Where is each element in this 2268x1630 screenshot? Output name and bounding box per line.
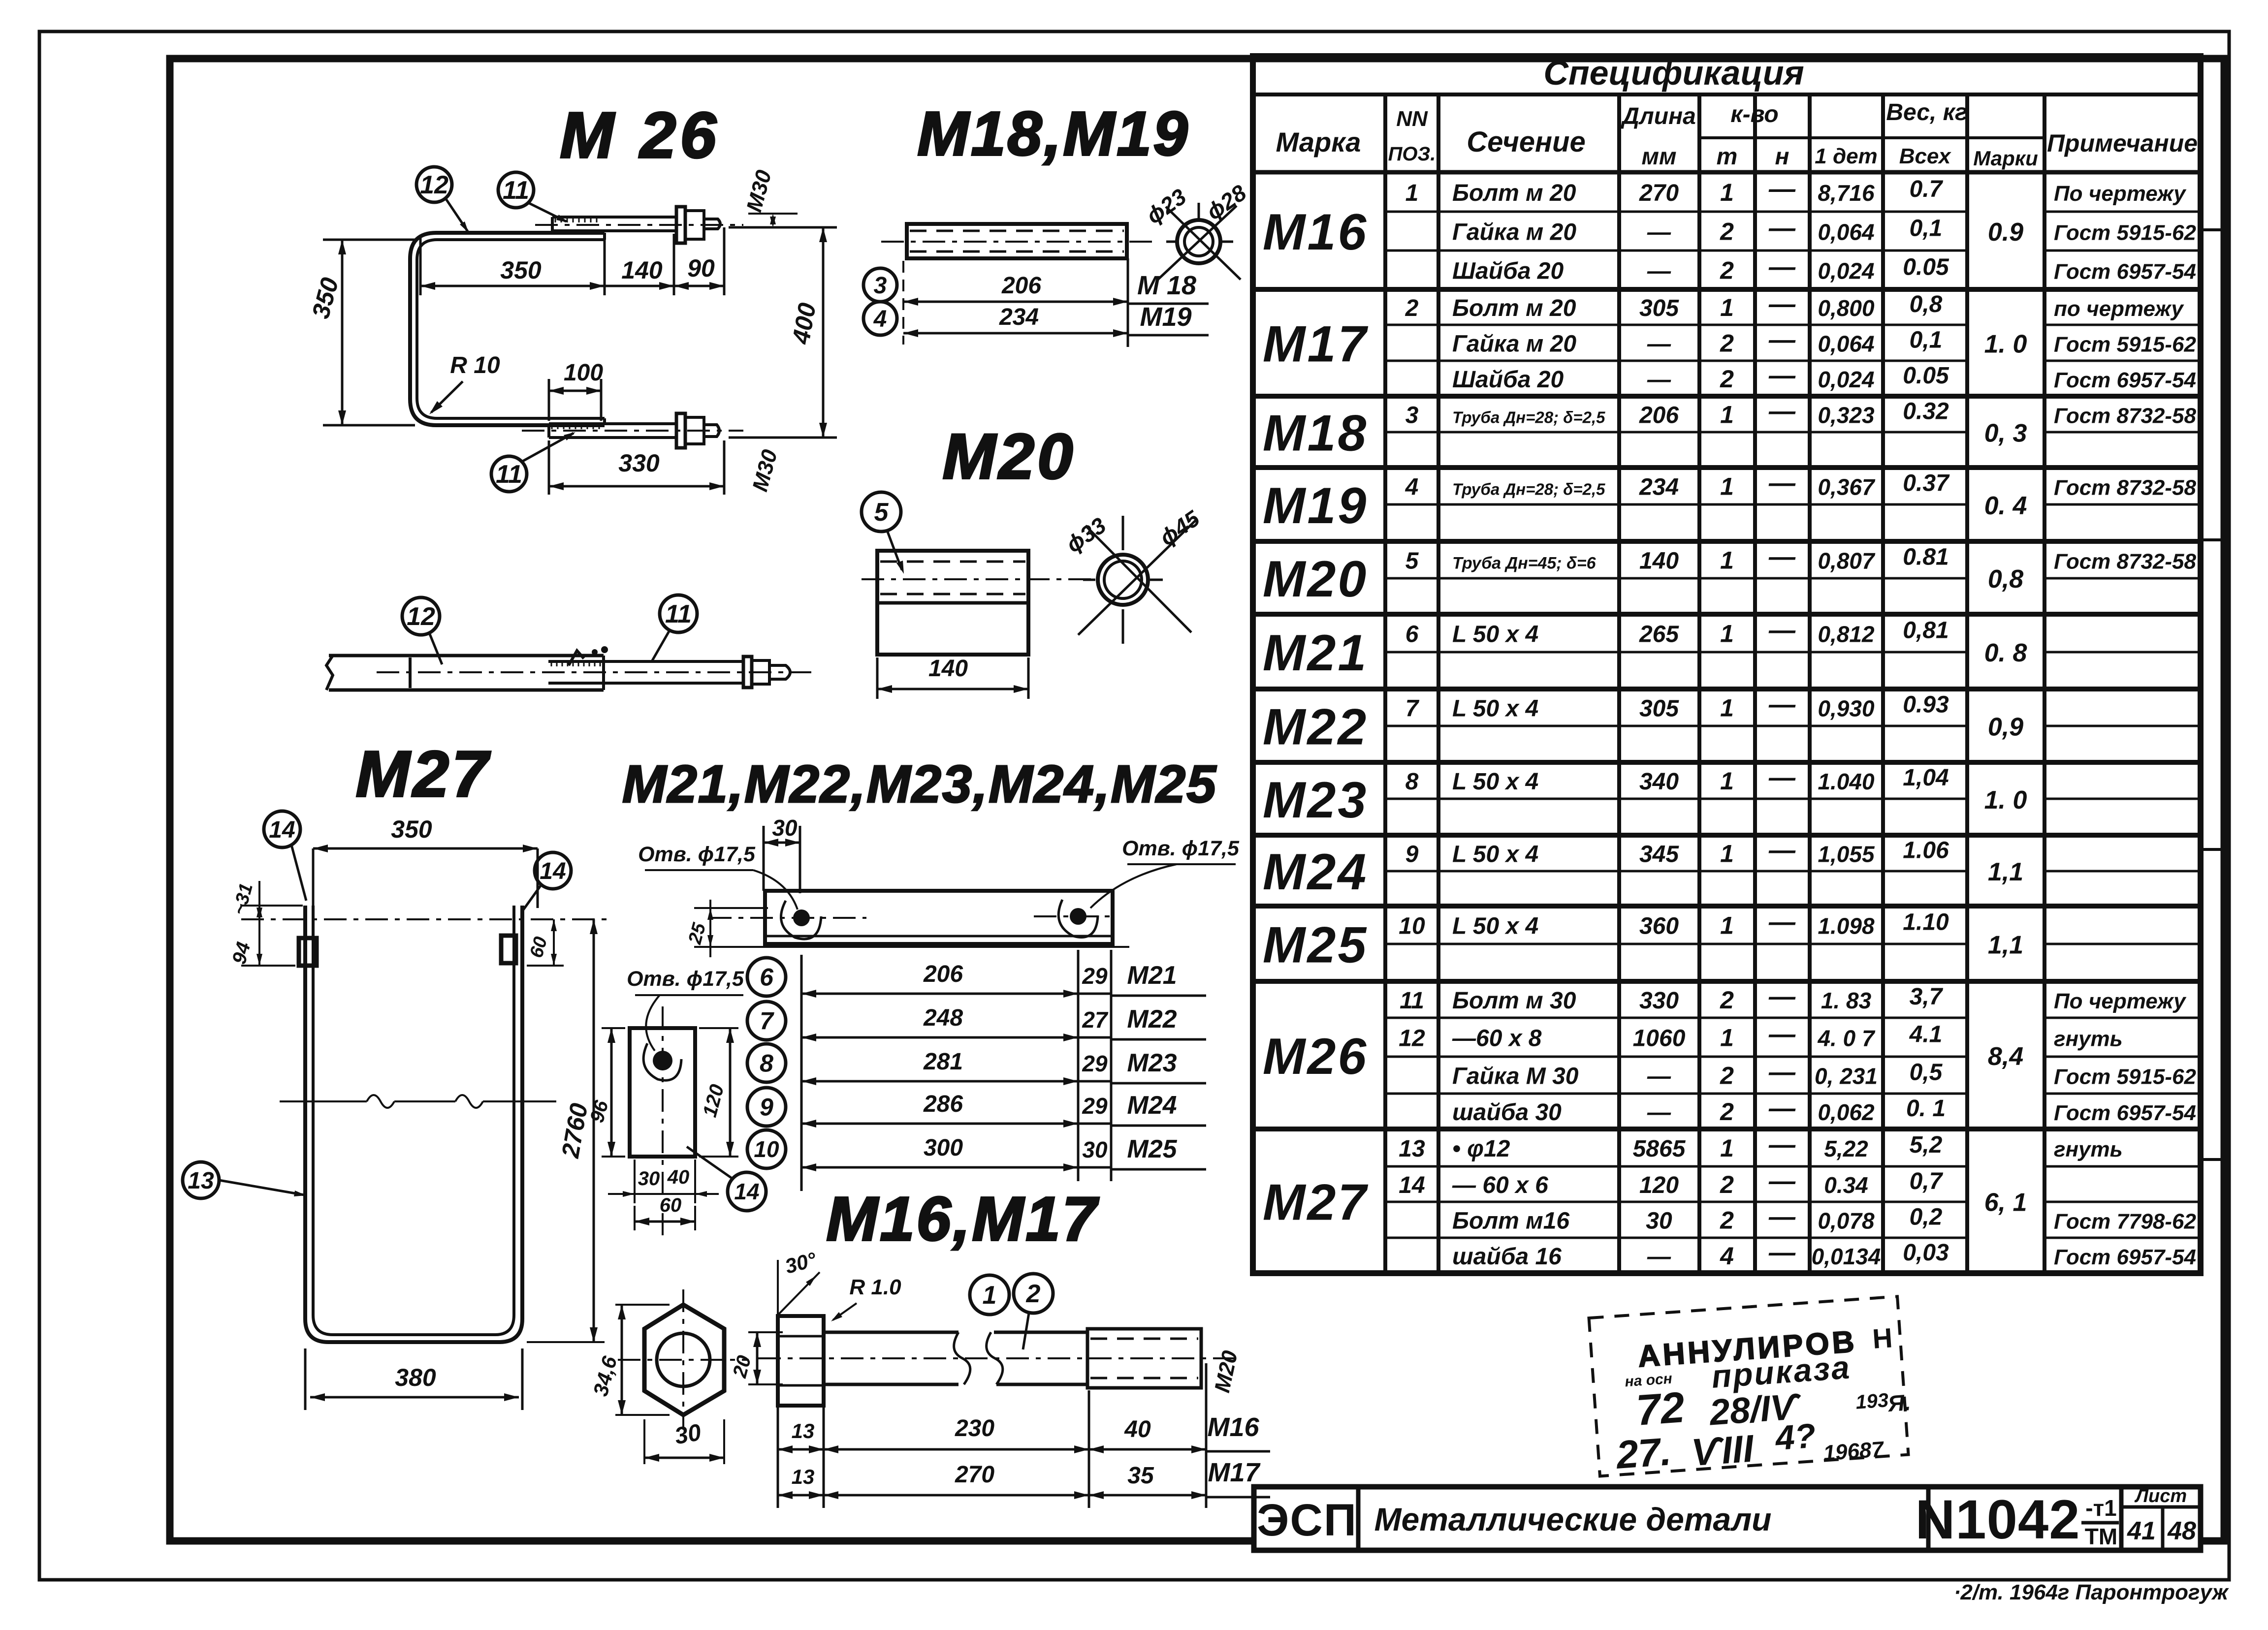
svg-text:0,8: 0,8 [1910,291,1943,317]
30 deg chamfer label [777,1260,779,1315]
svg-text:—: — [1768,690,1796,720]
svg-text:0,03: 0,03 [1903,1240,1949,1266]
svg-text:10: 10 [754,1136,779,1162]
svg-text:11: 11 [503,176,529,205]
svg-text:—: — [1768,763,1796,792]
spec table header bottom line [1253,170,2201,175]
svg-text:1 дет: 1 дет [1815,144,1878,168]
svg-text:М24: М24 [1263,844,1368,901]
svg-text:0,812: 0,812 [1818,622,1875,647]
svg-text:—: — [1768,1202,1796,1232]
svg-text:13: 13 [792,1465,815,1488]
svg-text:1: 1 [1720,840,1734,868]
svg-text:8,716: 8,716 [1818,180,1875,206]
svg-text:0.81: 0.81 [1903,544,1949,570]
svg-text:206: 206 [1001,273,1041,299]
svg-text:234: 234 [999,304,1039,330]
dimension chain 350/140/90 (M26) [419,237,422,295]
svg-text:0,367: 0,367 [1818,474,1876,500]
dimension 350 vertical left (M26) [323,239,415,241]
dim row M17 [778,1494,824,1497]
svg-text:М19: М19 [1263,477,1368,534]
svg-text:—: — [1768,325,1796,355]
svg-text:350: 350 [500,256,542,284]
dim rows M16/M17 [777,1408,779,1508]
balloon 1 (bolt M16) [970,1275,1009,1315]
svg-text:14: 14 [540,858,566,884]
dimension row М22 [801,1036,1078,1039]
dimension 100 (M26 bottom bolt thread len) [548,379,550,421]
svg-text:—: — [1768,982,1796,1011]
svg-text:1: 1 [1720,912,1734,940]
svg-text:11: 11 [1400,988,1424,1014]
svg-text:Болт м 30: Болт м 30 [1452,988,1576,1014]
svg-text:0,078: 0,078 [1818,1208,1875,1234]
svg-text:4: 4 [1405,474,1419,501]
svg-text:2: 2 [1720,218,1734,246]
dimension ~31 and 94 (M27 left) [241,905,303,907]
svg-text:ТМ: ТМ [2085,1524,2117,1549]
svg-text:380: 380 [395,1364,436,1391]
svg-text:Н: Н [1871,1322,1893,1354]
title block [1254,1487,2201,1550]
svg-text:0.7: 0.7 [1910,176,1944,202]
svg-text:N1042: N1042 [1915,1489,2080,1550]
spec table outer border [1253,56,2201,1273]
plate hole [653,1051,672,1070]
svg-text:Гост 5915-62: Гост 5915-62 [2054,1065,2197,1089]
svg-text:27.: 27. [1614,1429,1672,1477]
bolt head side view [778,1316,824,1406]
svg-text:0,2: 0,2 [1910,1204,1943,1230]
svg-text:—: — [1768,174,1796,204]
svg-text:248: 248 [923,1005,963,1031]
svg-text:Гост 5915-62: Гост 5915-62 [2054,221,2197,245]
table block М23 [1253,833,2201,838]
svg-text:— 60 x 6: — 60 x 6 [1452,1172,1548,1198]
svg-text:330: 330 [1639,988,1679,1014]
svg-text:—: — [1768,1130,1796,1160]
svg-text:Гост 6957-54: Гост 6957-54 [2054,260,2196,284]
dimension row М24 [801,1123,1078,1125]
svg-text:—: — [1768,289,1796,319]
svg-text:1: 1 [1720,767,1734,795]
svg-text:—: — [1768,542,1796,572]
svg-text:1: 1 [1720,294,1734,321]
svg-text:Гост 8732-58: Гост 8732-58 [2054,550,2197,574]
svg-text:0,1: 0,1 [1910,216,1943,242]
table block М21 [1253,687,2201,691]
svg-text:Примечание: Примечание [2047,129,2198,157]
svg-text:350: 350 [391,815,432,843]
svg-text:29: 29 [1082,1093,1108,1119]
svg-text:Сечение: Сечение [1467,126,1586,158]
svg-text:М18: М18 [1263,405,1368,462]
svg-text:2: 2 [1720,1062,1734,1090]
svg-text:5865: 5865 [1633,1136,1686,1162]
balloon 14 left (M27) [264,811,300,847]
svg-text:3: 3 [1406,403,1419,429]
dimension 400 vertical right (M26) [729,226,837,229]
svg-text:L 50 x 4: L 50 x 4 [1452,842,1538,868]
svg-text:к-во: к-во [1730,101,1778,127]
svg-text:330: 330 [618,449,660,477]
balloon 3 (M18) [863,268,897,302]
svg-text:NN: NN [1396,107,1428,131]
svg-text:234: 234 [1639,474,1679,501]
svg-text:100: 100 [564,360,603,386]
dimension 25 (bar) [694,907,768,909]
svg-text:360: 360 [1639,913,1679,940]
dimension 30 (nut) [643,1419,645,1464]
svg-text:19687: 19687 [1822,1437,1885,1466]
svg-text:8: 8 [760,1050,773,1077]
svg-text:2: 2 [1720,1098,1734,1126]
M26 top bolt item 11 [552,216,677,219]
dimension 140 (M20) [876,658,879,699]
svg-text:1: 1 [1720,547,1734,574]
svg-text:305: 305 [1639,696,1679,722]
svg-text:Я.: Я. [1886,1389,1912,1416]
svg-text:М21: М21 [1127,961,1177,990]
svg-text:L 50 x 4: L 50 x 4 [1452,622,1538,648]
svg-text:6: 6 [1406,622,1419,648]
svg-text:М16,М17: М16,М17 [826,1184,1099,1254]
svg-text:90: 90 [687,254,715,282]
svg-text:4. 0 7: 4. 0 7 [1817,1026,1876,1051]
svg-text:230: 230 [955,1415,994,1442]
svg-text:40: 40 [1124,1416,1151,1442]
svg-text:—: — [1768,616,1796,645]
dimension row М25 [801,1166,1078,1169]
M27 clamp plates item 14 [299,938,317,966]
svg-text:30: 30 [672,1419,703,1450]
svg-text:0,930: 0,930 [1818,696,1875,721]
balloons 6-10 [747,958,786,996]
svg-text:—: — [1768,214,1796,243]
svg-text:140: 140 [621,256,663,284]
svg-text:0,064: 0,064 [1818,219,1874,245]
svg-text:1: 1 [1720,1134,1734,1162]
svg-text:Гост 8732-58: Гост 8732-58 [2054,476,2197,500]
svg-text:6: 6 [760,964,774,991]
svg-text:М23: М23 [1263,772,1368,829]
part M27 bent rod item 13 [305,906,522,1342]
svg-text:35: 35 [1127,1463,1154,1489]
svg-text:ЭСП: ЭСП [1257,1495,1357,1545]
svg-text:2: 2 [1026,1280,1041,1308]
svg-text:4: 4 [1720,1242,1734,1270]
svg-text:М22: М22 [1263,699,1368,756]
svg-text:140: 140 [1639,548,1679,574]
balloon 14 right (M27) [535,852,571,889]
tube M18/M19 body [907,224,1127,258]
svg-text:• φ12: • φ12 [1452,1136,1510,1162]
table block М16 [1253,287,2201,292]
svg-text:Труба Дн=45; δ=6: Труба Дн=45; δ=6 [1452,554,1597,573]
dimension 96 (plate left) [602,1027,625,1029]
svg-text:345: 345 [1639,842,1679,868]
svg-text:М19: М19 [1140,302,1191,332]
dimension row М23 [801,1080,1078,1083]
svg-text:0,024: 0,024 [1818,367,1874,392]
list box [2121,1505,2201,1509]
svg-text:Гайка м 20: Гайка м 20 [1452,331,1576,357]
balloon 11 (M26 top bolt) [498,172,534,208]
svg-text:12: 12 [407,602,435,631]
svg-text:0, 3: 0, 3 [1984,419,2027,448]
dimension 380 bottom (M27) [304,1348,307,1410]
svg-text:М17: М17 [1208,1458,1261,1487]
svg-text:4: 4 [873,306,887,332]
part M21-M25 bar (top view) [765,891,1113,944]
balloon 12 (M26 strip) [416,167,452,202]
svg-text:Отв. ϕ17,5: Отв. ϕ17,5 [638,843,756,866]
part M26 bent strip item 12 [410,233,605,425]
svg-text:0.34: 0.34 [1824,1172,1868,1198]
dimension 350 top (M27) [312,848,315,908]
svg-text:7: 7 [1406,696,1420,722]
svg-text:0,5: 0,5 [1910,1060,1943,1086]
svg-text:1.098: 1.098 [1818,913,1875,939]
svg-text:30: 30 [1646,1208,1672,1234]
svg-text:8: 8 [1406,769,1419,795]
svg-text:5,22: 5,22 [1824,1136,1868,1161]
svg-text:R 10: R 10 [450,352,500,378]
svg-text:—: — [1768,397,1796,426]
svg-text:по чертежу: по чертежу [2054,297,2184,321]
svg-text:Шайба 20: Шайба 20 [1452,367,1564,393]
svg-text:Шайба 20: Шайба 20 [1452,258,1564,284]
svg-text:0,800: 0,800 [1818,295,1875,321]
svg-text:гнуть: гнуть [2054,1027,2123,1051]
svg-text:Длина: Длина [1620,103,1696,129]
balloon 11 lower (M26) [491,456,527,492]
svg-text:0,1: 0,1 [1910,327,1943,353]
svg-text:12: 12 [1399,1026,1425,1052]
svg-text:12: 12 [420,171,448,199]
svg-text:М23: М23 [1127,1049,1177,1077]
svg-text:н: н [1775,144,1789,170]
svg-text:14: 14 [269,817,295,843]
svg-text:—60 x 8: —60 x 8 [1452,1026,1542,1052]
svg-text:14: 14 [1399,1172,1425,1198]
svg-text:—: — [1768,1238,1796,1267]
svg-text:ПОЗ.: ПОЗ. [1388,143,1436,165]
svg-text:—: — [1768,1094,1796,1123]
svg-text:27: 27 [1082,1007,1109,1033]
svg-text:305: 305 [1639,295,1679,321]
svg-text:2: 2 [1720,330,1734,357]
svg-text:Всех: Всех [1899,144,1951,168]
svg-text:1,1: 1,1 [1988,931,2023,960]
svg-text:∙2/т. 1964г Паронтрогуж: ∙2/т. 1964г Паронтрогуж [1954,1580,2229,1604]
svg-text:шайба 30: шайба 30 [1452,1099,1562,1126]
svg-text:4.1: 4.1 [1909,1022,1943,1048]
svg-text:1: 1 [1720,620,1734,648]
svg-text:0,024: 0,024 [1818,258,1874,284]
svg-text:М16: М16 [1207,1412,1259,1442]
svg-text:Вес, кг: Вес, кг [1886,99,1967,125]
balloon 11 (side view) [660,595,697,632]
dimension 34.6 (nut) [615,1304,670,1306]
balloon 14 (plate) [728,1172,766,1211]
svg-text:М17: М17 [1263,316,1368,373]
extension lines M18/M19 dims [902,261,904,345]
svg-text:Спецификация: Спецификация [1543,54,1804,92]
svg-text:1.06: 1.06 [1903,838,1949,864]
svg-text:—: — [1647,1244,1671,1270]
svg-text:—: — [1768,1020,1796,1049]
svg-text:М16: М16 [1263,204,1368,261]
tube cross-section M20 [1098,555,1148,605]
svg-text:Болт м 20: Болт м 20 [1452,180,1576,206]
svg-text:—: — [1647,331,1671,357]
svg-text:1. 0: 1. 0 [1984,786,2027,815]
svg-text:1: 1 [1720,1024,1734,1052]
svg-text:Гост 5915-62: Гост 5915-62 [2054,333,2197,357]
balloon 12 (side view) [402,597,440,635]
fold mark ticks on right margin [2201,228,2229,231]
svg-text:2: 2 [1720,1171,1734,1198]
svg-text:М21: М21 [1263,625,1368,682]
svg-text:0,0134: 0,0134 [1812,1244,1881,1269]
table block М17 [1253,394,2201,399]
svg-text:М26: М26 [1263,1028,1368,1085]
svg-text:11: 11 [665,600,692,628]
svg-text:—: — [1647,219,1671,246]
svg-text:9: 9 [1406,842,1419,868]
svg-text:—: — [1768,1058,1796,1087]
svg-text:30: 30 [638,1168,660,1190]
bar bottom extension line [700,946,1129,948]
svg-text:0,807: 0,807 [1818,548,1876,574]
svg-text:М21,М22,М23,М24,М25: М21,М22,М23,М24,М25 [622,754,1217,814]
svg-text:0.37: 0.37 [1903,470,1950,497]
svg-text:13: 13 [188,1168,214,1194]
svg-text:270: 270 [955,1462,994,1488]
svg-text:Болт м 20: Болт м 20 [1452,295,1576,321]
svg-text:ѴІІІ: ѴІІІ [1690,1426,1756,1474]
svg-text:281: 281 [923,1049,963,1075]
svg-text:0,8: 0,8 [1988,565,2023,594]
dimension 2760 (M27) [527,1341,605,1343]
dimension 120 (plate) [699,1027,738,1029]
svg-text:Отв. ϕ17,5: Отв. ϕ17,5 [627,967,744,991]
svg-text:1,1: 1,1 [1988,858,2023,886]
svg-text:0. 1: 0. 1 [1906,1096,1946,1122]
part M26 side view strip item 12 [326,656,333,690]
svg-text:0,064: 0,064 [1818,331,1874,357]
svg-text:Труба Дн=28; δ=2,5: Труба Дн=28; δ=2,5 [1452,408,1605,427]
svg-text:L 50 x 4: L 50 x 4 [1452,696,1538,722]
svg-text:14: 14 [734,1179,759,1204]
svg-text:М27: М27 [1263,1174,1368,1231]
svg-text:40: 40 [667,1166,690,1188]
table block М18 [1253,465,2201,470]
svg-text:0,81: 0,81 [1903,618,1949,644]
svg-text:30: 30 [1082,1137,1108,1162]
svg-text:—: — [1768,908,1796,937]
svg-text:Марки: Марки [1973,147,2038,170]
svg-text:—: — [1647,258,1671,284]
tube cross-section M18/M19 [1177,220,1220,263]
svg-text:мм: мм [1641,144,1676,170]
svg-text:Труба Дн=28; δ=2,5: Труба Дн=28; δ=2,5 [1452,480,1605,499]
svg-text:5: 5 [1406,548,1419,574]
svg-text:—: — [1768,469,1796,498]
svg-text:т: т [1717,144,1738,170]
dimension 30/40 (plate) [634,1160,636,1203]
svg-text:—: — [1768,252,1796,282]
svg-text:Гост 6957-54: Гост 6957-54 [2054,1245,2196,1269]
svg-text:М25: М25 [1127,1135,1177,1163]
svg-text:1,04: 1,04 [1903,765,1949,791]
header split line k-vo / ves [1699,136,1810,139]
svg-text:1: 1 [1720,179,1734,206]
dimension 60 (plate) [634,1206,636,1230]
balloon 4 (M19) [863,302,897,335]
svg-text:шайба 16: шайба 16 [1452,1244,1562,1270]
svg-text:9: 9 [760,1094,773,1121]
bolt shank [824,1331,958,1334]
svg-text:3: 3 [874,273,887,299]
svg-text:М27: М27 [356,738,491,810]
svg-text:2: 2 [1720,1207,1734,1234]
svg-text:0.93: 0.93 [1903,692,1949,718]
svg-text:2: 2 [1720,257,1734,284]
cancellation stamp [1589,1296,1915,1481]
svg-text:140: 140 [928,656,968,682]
svg-text:Гайка М 30: Гайка М 30 [1452,1064,1579,1090]
svg-text:206: 206 [1639,403,1679,429]
svg-text:13: 13 [1399,1136,1425,1162]
svg-text:5,2: 5,2 [1910,1132,1943,1158]
svg-text:193: 193 [1855,1389,1889,1413]
part plate item 14 (M27 clamp) [630,1028,695,1157]
svg-text:1. 83: 1. 83 [1821,988,1872,1013]
dimension 20 (bolt head) [748,1331,783,1333]
break marks (M27 rod) [280,1100,367,1102]
svg-text:72: 72 [1634,1382,1686,1435]
svg-text:1: 1 [1720,401,1734,429]
svg-text:Гост 6957-54: Гост 6957-54 [2054,1101,2196,1125]
svg-text:8,4: 8,4 [1988,1042,2023,1071]
dimension 30 (bar) [763,826,765,891]
table block М20 [1253,612,2201,617]
table block М25 [1253,979,2201,984]
svg-text:1: 1 [1720,694,1734,722]
svg-text:Гост 8732-58: Гост 8732-58 [2054,404,2197,428]
svg-text:0.05: 0.05 [1903,254,1949,281]
svg-text:41: 41 [2127,1517,2156,1545]
svg-text:300: 300 [924,1135,963,1161]
spec table title row line [1253,93,2201,96]
svg-text:М25: М25 [1263,917,1368,974]
svg-text:0,323: 0,323 [1818,403,1875,428]
dimension 206 M18 [903,301,1128,303]
svg-text:0, 231: 0, 231 [1815,1064,1878,1089]
svg-text:L 50 x 4: L 50 x 4 [1452,769,1538,795]
svg-text:1: 1 [1720,473,1734,501]
svg-text:3,7: 3,7 [1910,984,1944,1010]
svg-text:270: 270 [1639,180,1679,206]
svg-text:6, 1: 6, 1 [1984,1189,2027,1217]
bolt item 11 in side view [548,660,744,663]
svg-text:Гост 6957-54: Гост 6957-54 [2054,368,2196,392]
svg-text:0.05: 0.05 [1903,363,1949,389]
svg-text:1: 1 [1406,180,1419,206]
